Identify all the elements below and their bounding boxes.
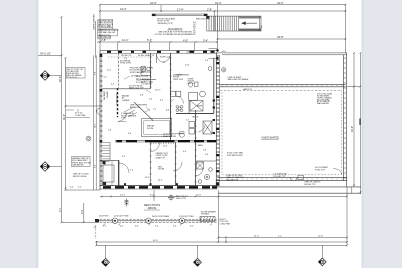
svg-text:LINE BELOW: LINE BELOW	[98, 37, 110, 39]
svg-text:44'-2: 44'-2	[153, 240, 159, 242]
door arc laundry	[176, 96, 184, 104]
wall: top exterior of house	[100, 50, 218, 53]
grey band right	[362, 0, 402, 268]
tick marks on dimension lines	[61, 4, 362, 247]
svg-text:CANTILEVER ABV: CANTILEVER ABV	[93, 13, 96, 30]
svg-text:CAP ABOVE: CAP ABOVE	[72, 164, 84, 167]
svg-text:MECH: MECH	[188, 83, 194, 85]
note below bottom wall right	[304, 182, 321, 186]
toilet ellipse	[179, 132, 184, 137]
double circle marker right of wall	[222, 68, 226, 72]
svg-text:11'-2: 11'-2	[107, 70, 111, 72]
svg-text:SLAB TYP: SLAB TYP	[156, 156, 166, 159]
door arcs	[118, 54, 205, 176]
svg-text:5'-4: 5'-4	[130, 170, 133, 172]
dim slash ticks under beam	[103, 224, 212, 226]
wall: garage top (two thin lines)	[218, 53, 348, 55]
svg-text:4X4 POST: 4X4 POST	[99, 216, 109, 218]
svg-text:(TYP): (TYP)	[121, 118, 126, 120]
vertical room label on left wall	[103, 91, 109, 100]
dimension vertical: left x65.5	[65, 58, 67, 190]
extra bath circle	[209, 168, 213, 172]
svg-text:21'-0: 21'-0	[254, 236, 260, 238]
wall: bath bottom y161	[196, 160, 217, 162]
svg-text:10'-0: 10'-0	[158, 180, 162, 182]
svg-text:POCKET TYP: POCKET TYP	[273, 176, 286, 178]
svg-text:3'-8: 3'-8	[128, 133, 131, 135]
bottom dim labels	[120, 194, 324, 242]
garage corner note (right)	[317, 93, 333, 106]
boxed note mid-left	[72, 157, 92, 167]
wall: unexcavated right	[342, 55, 344, 181]
wall: diagonal	[134, 102, 153, 121]
svg-text:FDN ABV: FDN ABV	[201, 213, 210, 216]
door arc bath	[199, 125, 206, 132]
dimension line: overall top 44'-0	[100, 4, 346, 6]
washer/dryer boxes	[171, 91, 176, 96]
svg-text:4'-0: 4'-0	[111, 84, 114, 86]
door header black bits	[213, 100, 215, 102]
extension ticks from top wall to y42 dim	[117, 43, 119, 50]
6x6 PT note right of beam	[220, 219, 231, 225]
stair side note	[193, 22, 197, 34]
svg-text:(2) 2X10 PT BM: (2) 2X10 PT BM	[179, 216, 194, 218]
door arc bath lower	[195, 168, 203, 176]
deck above centered label	[155, 27, 196, 35]
wet bar cluster	[141, 67, 151, 76]
wall: interior horizontal y74.9	[176, 74, 189, 76]
svg-text:44'-0": 44'-0"	[150, 1, 157, 5]
svg-text:BELOW TYP: BELOW TYP	[226, 179, 238, 181]
svg-text:2X6 SILL PL: 2X6 SILL PL	[121, 55, 132, 57]
stair dark band top-right	[239, 16, 261, 18]
wall: closet left x118.7 lower	[118, 160, 120, 186]
dimension extension: x154 bottom	[153, 190, 155, 201]
under-stair X storage box	[190, 101, 203, 112]
svg-text:34'-0 1/2": 34'-0 1/2"	[40, 52, 51, 56]
svg-text:7'-2: 7'-2	[153, 109, 156, 111]
svg-text:BATH: BATH	[197, 105, 203, 108]
line of conc note	[226, 175, 244, 182]
deck beam at bottom	[96, 217, 217, 224]
interior room notes	[103, 51, 203, 179]
wall: interior vertical x189 laundry	[188, 100, 190, 114]
P/L mark	[95, 219, 98, 222]
stair outline	[207, 16, 261, 31]
svg-text:4 POST FOUNDATION REQUIREMENTS: 4 POST FOUNDATION REQUIREMENTS	[155, 33, 196, 36]
dimension vertical: left main x61.5	[61, 17, 63, 222]
extra scattered dims	[107, 70, 206, 182]
stair direction arrow	[242, 22, 257, 25]
deck post circle 1	[112, 218, 117, 223]
note below box	[73, 174, 89, 178]
svg-text:ROOM: ROOM	[147, 128, 154, 130]
window well semicircle on bottom wall	[290, 177, 297, 181]
svg-text:34'-0: 34'-0	[222, 51, 226, 53]
dimension extension: x96.3 bottom	[95, 241, 97, 246]
wall: interior vertical x170.5	[170, 53, 172, 141]
dimension vertical: right x354	[353, 53, 355, 187]
svg-text:33'-8": 33'-8"	[277, 35, 284, 39]
dimension extension: x347 bottom	[346, 186, 348, 245]
dimension extension: x214.5	[214, 11, 216, 31]
wall: interior right / basement-garage separation	[216, 49, 219, 185]
svg-text:3'-6: 3'-6	[124, 58, 127, 60]
shelf diagonals under stair	[124, 108, 137, 118]
stair upper-right treads	[241, 16, 256, 19]
svg-text:O.C. ABOVE: O.C. ABOVE	[141, 83, 153, 86]
dashed line below top wall (insulation)	[108, 56, 152, 58]
svg-text:22'-0: 22'-0	[318, 236, 324, 238]
section marker 2 (left lower)	[40, 162, 49, 171]
beam right-end block note	[201, 212, 216, 216]
svg-text:12'-4: 12'-4	[163, 146, 167, 148]
svg-text:JOISTS ABOVE: JOISTS ABOVE	[130, 71, 145, 74]
drop line to marker A	[105, 245, 107, 258]
column circle near wall	[208, 67, 212, 71]
wall: closet top y160.3	[100, 159, 119, 161]
deck post circle 2	[146, 218, 151, 223]
water heater circle	[200, 91, 206, 97]
wall: interior horizontal y79.5 wet bar	[140, 79, 156, 81]
dimension extension: left x100 top	[99, 5, 101, 50]
svg-text:13'-2: 13'-2	[120, 194, 126, 196]
dimension extension: x218.3 bottom	[217, 190, 219, 242]
dimension line: y42 row over house	[97, 41, 217, 43]
leader from section marker 2	[50, 166, 62, 168]
svg-text:8'-4: 8'-4	[94, 72, 96, 75]
svg-text:2'-8": 2'-8"	[207, 8, 212, 12]
tiny text row under top wall	[121, 54, 170, 58]
svg-text:GAME RM: GAME RM	[103, 91, 106, 100]
door arc top wall 1	[157, 54, 166, 63]
svg-text:32'-0": 32'-0"	[59, 76, 62, 82]
deck above notes	[157, 18, 210, 25]
dimension vertical: right x360.5	[360, 53, 362, 194]
dimension tick line: y222.3 bottom-left	[62, 221, 97, 223]
svg-text:FDN WALL BELOW: FDN WALL BELOW	[98, 31, 115, 34]
dimension line: bottom long y242	[97, 241, 348, 243]
corner leader note	[315, 167, 328, 171]
dimension vertical x96.2 left of wall	[95, 55, 97, 190]
window well bump left wall	[97, 108, 100, 114]
svg-text:LEDGE TYP: LEDGE TYP	[304, 184, 316, 186]
fan/flower symbol	[176, 105, 183, 111]
fixtures	[86, 67, 226, 184]
svg-text:6'-2: 6'-2	[122, 156, 125, 158]
svg-text:(TYP OF 4): (TYP OF 4)	[67, 77, 78, 79]
dimension vertical: left x83.8 short	[83, 203, 85, 222]
media room inner rectangle	[142, 119, 172, 137]
dashed inner rectangle of unexcavated	[222, 90, 341, 175]
left column circle marker	[86, 136, 91, 141]
stair left newel double line	[208, 16, 210, 31]
svg-text:POST (TYP): POST (TYP)	[120, 63, 132, 65]
svg-text:CARPET: CARPET	[106, 91, 109, 100]
beam: dark horizontal through basement	[115, 140, 218, 142]
black studs on interior-right wall	[216, 62, 219, 64]
small marks along bottom wall	[124, 183, 178, 185]
svg-text:3'-2: 3'-2	[186, 120, 189, 122]
svg-text:2'-8: 2'-8	[203, 150, 206, 152]
section marker bottom 1	[102, 258, 110, 266]
svg-text:DWG (TYP): DWG (TYP)	[176, 198, 186, 200]
dimension line: bottom y196.5	[100, 196, 347, 198]
scattered small annotations	[122, 58, 208, 158]
svg-text:12'-6: 12'-6	[196, 194, 202, 196]
wall: interior vertical x156.5 upper	[156, 53, 158, 63]
svg-text:7'-6: 7'-6	[108, 130, 111, 132]
beam labels	[99, 215, 194, 218]
dot hatch on unexcavated top wall	[222, 85, 342, 87]
left column notes box	[66, 68, 85, 79]
interior wall tick hatches	[150, 57, 197, 182]
svg-text:LANDING: LANDING	[187, 51, 196, 54]
drop line to marker B	[197, 245, 199, 258]
dimension tick line: y55.3 left	[38, 54, 62, 56]
svg-text:3'-0: 3'-0	[205, 154, 208, 156]
svg-text:SAW CUT: SAW CUT	[243, 88, 253, 91]
note box top-left 1	[98, 20, 114, 30]
svg-text:1/2: 1/2	[193, 32, 196, 34]
stair top-left corner block	[206, 16, 209, 19]
svg-text:5'-0": 5'-0"	[147, 38, 152, 42]
svg-text:11'-4": 11'-4"	[122, 38, 128, 42]
door arc top wall 2	[163, 54, 171, 62]
svg-text:POST TYP: POST TYP	[315, 169, 325, 171]
porch edge vertical x93.5	[93, 55, 95, 190]
corner black blob garage bottom-left	[216, 182, 220, 186]
sump circle 1	[204, 174, 209, 179]
small rect beside window well	[298, 175, 303, 180]
grey band left	[0, 0, 38, 268]
svg-text:ROOM: ROOM	[158, 169, 165, 171]
svg-text:BRICK LEDGE: BRICK LEDGE	[73, 176, 87, 178]
svg-text:3'-4": 3'-4"	[203, 38, 208, 42]
section marker 1 (left upper)	[40, 71, 49, 80]
garage slab lower lines	[216, 186, 361, 188]
svg-text:10'-2: 10'-2	[94, 124, 96, 128]
svg-text:BATH: BATH	[198, 144, 204, 147]
svg-text:MECH: MECH	[193, 117, 199, 119]
wall: unexcavated top	[220, 83, 346, 85]
dimension line: bottom y237.6	[218, 237, 347, 239]
sump circle 2	[198, 180, 202, 184]
door arc at beam opening	[151, 143, 160, 152]
svg-text:GIRDERS (TYP): GIRDERS (TYP)	[157, 23, 173, 25]
svg-text:FOR MECH UNIT: FOR MECH UNIT	[227, 155, 244, 157]
under-beam hatch fringe	[151, 142, 174, 144]
wall: interior vertical x175.5 lower	[175, 142, 177, 186]
stair group	[207, 16, 261, 31]
dimension line: y190 lower-left tick	[66, 189, 101, 191]
wall: interior horizontal y88.8 left room	[102, 88, 151, 90]
conc pad note left	[75, 113, 86, 117]
svg-text:2'-10: 2'-10	[185, 65, 189, 67]
svg-text:OWNER: OWNER	[122, 100, 130, 102]
drop line to marker C	[321, 245, 323, 258]
svg-text:9'-0: 9'-0	[183, 151, 186, 153]
wall: interior vertical x118.7 upper	[118, 53, 120, 88]
landing lines left of wall	[209, 48, 218, 50]
dimension extension: x226 bottom	[225, 236, 227, 242]
beam tick labels	[103, 226, 194, 228]
deck hatched band above house	[152, 14, 207, 16]
door arc mid-left closet	[118, 113, 126, 121]
wall: interior horizontal y113.5	[176, 113, 214, 115]
svg-text:VINYL FLR: VINYL FLR	[173, 79, 184, 81]
steel beam note	[273, 174, 286, 178]
svg-text:2X4 WALL: 2X4 WALL	[131, 75, 140, 78]
deck beam left end block	[96, 219, 99, 222]
dimension line: 33'-8 garage top	[218, 38, 346, 40]
svg-text:W/ SILL SEAL TYP: W/ SILL SEAL TYP	[138, 54, 155, 57]
dot hatch on unexcavated bottom wall	[222, 178, 342, 180]
svg-text:17'-4": 17'-4"	[177, 7, 184, 11]
shower box with X	[197, 162, 204, 169]
deck beam right hatched block	[200, 217, 215, 222]
svg-text:5'-8: 5'-8	[140, 95, 143, 97]
conc pad note mid	[227, 152, 244, 157]
svg-text:6'-0: 6'-0	[94, 165, 96, 168]
svg-text:(2) 2X10 PT BM: (2) 2X10 PT BM	[114, 216, 129, 218]
svg-text:CONC PIER: CONC PIER	[220, 223, 231, 225]
unexcavated area walls	[216, 53, 361, 193]
svg-text:21'-4": 21'-4"	[120, 7, 127, 11]
leader lines small	[124, 76, 174, 112]
wall: house bottom exterior	[100, 186, 218, 189]
svg-text:DECK POSTS ABV: DECK POSTS ABV	[152, 215, 170, 218]
svg-text:BM ABOVE: BM ABOVE	[130, 106, 141, 109]
svg-text:BEAM ABOVE: BEAM ABOVE	[163, 135, 177, 138]
svg-text:WALL ABOVE: WALL ABOVE	[317, 102, 330, 105]
svg-text:WALL BELOW GRADE: WALL BELOW GRADE	[228, 78, 249, 81]
closet/stair box bottom-left	[103, 142, 115, 186]
dimension tick: right y86.5	[347, 86, 361, 88]
short vertical garage apron	[351, 187, 353, 193]
svg-text:UNEXCAVATED: UNEXCAVATED	[262, 137, 280, 140]
svg-text:SUSP CLG: SUSP CLG	[160, 57, 170, 59]
dimension extension: x161 top	[160, 5, 162, 11]
drawing title	[144, 204, 160, 210]
svg-text:BSMT CLG TYP: BSMT CLG TYP	[129, 88, 144, 90]
note box top-left 3	[98, 36, 111, 39]
leader from dropped bm note	[146, 107, 150, 112]
svg-text:CONC PAD: CONC PAD	[75, 114, 86, 117]
line of bsmt note	[228, 77, 249, 81]
stair dark band bottom-right	[239, 29, 262, 31]
svg-text:2'-6: 2'-6	[149, 99, 152, 101]
saw-cut dashed line below top wall	[220, 89, 342, 91]
svg-text:2X4 FURRING: 2X4 FURRING	[115, 93, 117, 105]
svg-text:6'-8: 6'-8	[166, 110, 169, 112]
section marker bottom 3	[318, 258, 326, 266]
black studs on left wall	[100, 54, 103, 57]
leader from section marker 1	[50, 75, 62, 77]
wall: interior vertical x213.8 bath	[213, 58, 215, 114]
mech rects beside air handler	[189, 122, 195, 135]
door arc bedroom bottom	[173, 162, 182, 171]
dimension extension: right corner to top dims	[345, 5, 347, 53]
extra left column marks: conc pad leader	[66, 109, 90, 118]
furnace box	[189, 92, 198, 100]
air handler X box	[203, 121, 212, 134]
svg-text:3'-0: 3'-0	[160, 100, 163, 102]
note box top-left 2	[98, 29, 120, 37]
interior walls (approximate)	[100, 53, 217, 186]
dimension line: y106 porch left	[66, 105, 101, 107]
svg-text:44'-2": 44'-2"	[215, 1, 222, 5]
dimension extension: x217.5 through stair	[217, 5, 219, 52]
circle cross marker above beam	[168, 195, 174, 201]
svg-text:16 OC: 16 OC	[155, 90, 161, 92]
wall: unexcavated bottom	[218, 176, 348, 178]
svg-text:ABOVE: ABOVE	[148, 207, 157, 210]
door arc closet lower-left	[119, 163, 129, 173]
wall: interior vertical x150.5 upper	[150, 53, 152, 89]
svg-text:32'-0": 32'-0"	[63, 114, 66, 120]
beam dotted texture	[98, 220, 200, 222]
stair right end double line	[259, 16, 261, 31]
dimension line: bottom long y245.3	[97, 244, 348, 246]
svg-text:5'-4: 5'-4	[205, 60, 208, 62]
svg-text:MIN 10X10 PA: MIN 10X10 PA	[196, 18, 210, 21]
bath fixtures upper	[189, 82, 199, 87]
deck post circle 3	[179, 218, 184, 223]
section marker bottom 2	[194, 258, 202, 266]
svg-text:44'-2": 44'-2"	[277, 1, 284, 5]
tick hatch on right exterior wall	[344, 58, 346, 178]
svg-text:4'-0": 4'-0"	[183, 38, 188, 42]
stair treads	[211, 16, 238, 31]
wall: interior vertical x150.5 lower	[150, 141, 152, 186]
detail cross symbol	[125, 199, 129, 207]
wall: left exterior	[100, 50, 103, 190]
dimension vertical: x95.5 upper-left	[95, 21, 97, 58]
svg-text:32'-0": 32'-0"	[351, 126, 354, 132]
wall: interior vertical x195.5	[195, 110, 197, 186]
wall: interior vertical x117.5 dark mid	[117, 88, 119, 117]
dimension line: top second row	[100, 10, 346, 12]
